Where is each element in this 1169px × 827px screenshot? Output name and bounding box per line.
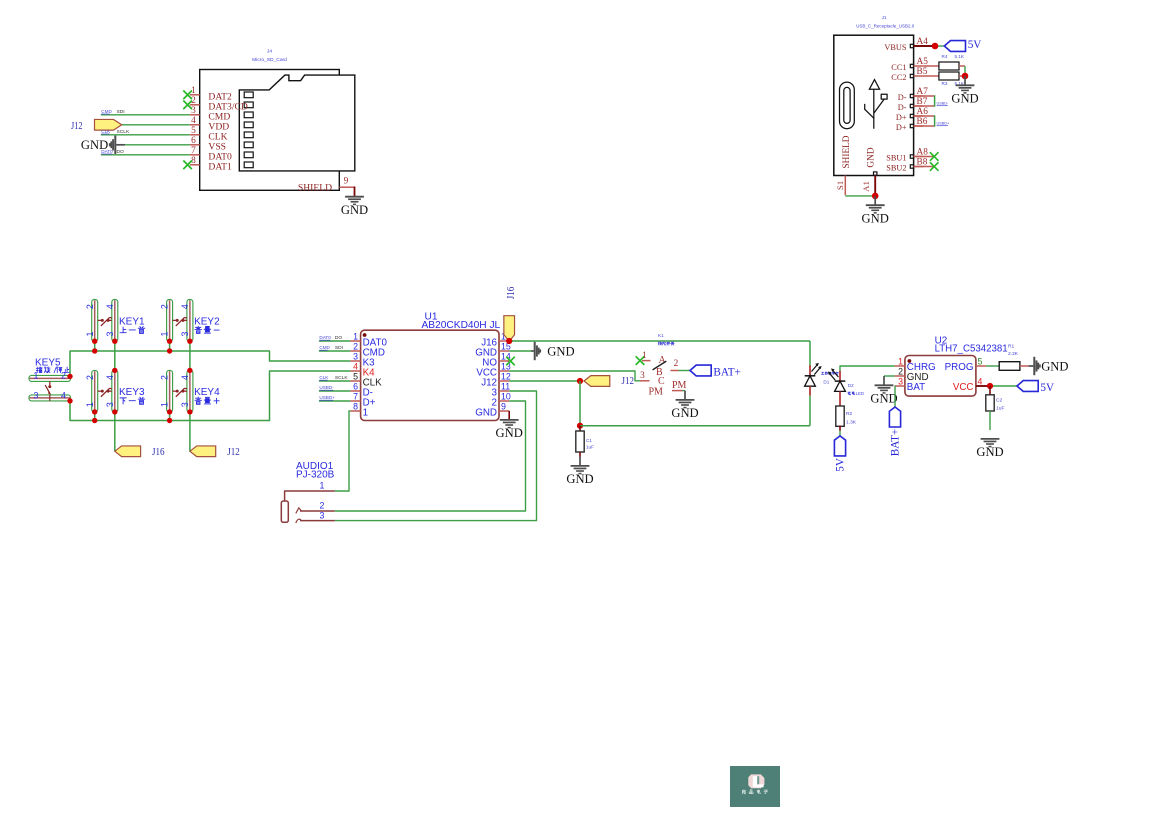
U1 pin 11 3 — [492, 381, 511, 398]
U1 pin 7 D+ — [350, 391, 375, 408]
svg-text:J16: J16 — [152, 446, 165, 458]
svg-text:CC1: CC1 — [891, 63, 906, 72]
wire U1 pin10 to AUDIO1 pin2 — [335, 401, 526, 511]
svg-text:D-: D- — [898, 103, 907, 112]
ground GND on PM net — [671, 391, 698, 421]
svg-text:3: 3 — [105, 402, 115, 407]
svg-text:D-: D- — [898, 93, 907, 102]
resistor R2 1.3K — [836, 391, 857, 426]
svg-text:S1: S1 — [835, 181, 845, 190]
svg-text:2: 2 — [898, 366, 903, 376]
connector J4 body — [200, 70, 355, 191]
svg-text:3: 3 — [180, 331, 190, 336]
svg-text:C2: C2 — [996, 398, 1003, 404]
J1 pin CC1 net A5 — [891, 57, 928, 72]
J1 pin SBU2 net B8 — [886, 158, 927, 173]
svg-text:1: 1 — [642, 351, 647, 361]
resistor R1 2.2K on PROG — [986, 344, 1020, 371]
switch K1 lever — [653, 361, 667, 370]
svg-text:4: 4 — [353, 361, 358, 371]
switch K1 name label — [658, 333, 674, 345]
junction KEY2 pin1 — [167, 339, 172, 344]
svg-text:5: 5 — [191, 126, 196, 136]
svg-text:C: C — [658, 376, 665, 387]
wire U2 GND pin2 to ground — [884, 375, 895, 377]
svg-text:C1: C1 — [586, 438, 592, 443]
wire net USBD+ at U1 pin7 — [319, 395, 351, 401]
no-connect X on J4 pin 1 — [183, 91, 192, 100]
U1 pin 9 GND — [475, 401, 509, 418]
U2 pin 1 CHRG — [895, 356, 936, 373]
svg-text:4: 4 — [61, 391, 66, 401]
svg-text:2: 2 — [85, 304, 95, 309]
svg-text:PM: PM — [649, 387, 664, 398]
wire R4/R3 to ground — [959, 66, 965, 76]
svg-text:11: 11 — [501, 381, 510, 391]
svg-text:3: 3 — [180, 402, 190, 407]
junction on VBUS wire — [932, 43, 939, 50]
svg-text:1uF: 1uF — [996, 406, 1004, 412]
junction KEY2 pin3 — [187, 339, 192, 344]
no-connect X on J4 pin 8 — [183, 161, 192, 170]
junction KEY3 pin3 — [112, 409, 117, 414]
J4 pin 4 VDD — [190, 116, 229, 132]
svg-text:5V: 5V — [968, 39, 982, 51]
U2 pin 5 PROG — [945, 356, 986, 373]
no-connect X on SBU1 — [914, 152, 939, 161]
svg-text:PJ-320B: PJ-320B — [296, 469, 335, 480]
power flag 5V at VBUS — [944, 39, 981, 52]
svg-text:J16: J16 — [505, 286, 517, 299]
J1 USB trident symbol — [865, 80, 887, 129]
svg-text:GND: GND — [547, 344, 574, 358]
U1 pin 13 VCC — [476, 361, 511, 378]
svg-text:9: 9 — [344, 176, 349, 186]
no-connect X on U1 pin14 — [506, 357, 515, 366]
svg-text:J12: J12 — [227, 446, 240, 458]
U1 pin 6 D- — [350, 381, 373, 398]
U1 pin1 marker — [363, 333, 367, 337]
svg-text:LED: LED — [856, 391, 864, 396]
pushbutton KEY5 (play/pause) — [29, 358, 71, 401]
corner logo badge — [730, 766, 780, 807]
J4 pin 8 DAT1 — [190, 156, 232, 172]
svg-text:J12: J12 — [622, 375, 635, 387]
pushbutton KEY3 (next song) — [85, 370, 145, 412]
U2 pin 3 BAT — [895, 376, 925, 393]
svg-text:3: 3 — [640, 371, 645, 381]
svg-text:GND: GND — [341, 203, 368, 217]
AUDIO1 pin 2 — [296, 501, 335, 514]
svg-text:6: 6 — [353, 381, 358, 391]
svg-text:3: 3 — [353, 351, 358, 361]
capacitor C1 1uF — [576, 426, 594, 457]
switch K1 pin1 with no-connect X — [636, 351, 651, 365]
wire net DAT0 at U1 pin1 — [319, 335, 351, 341]
svg-text:J1: J1 — [882, 15, 887, 20]
svg-text:D+: D+ — [896, 123, 907, 132]
svg-text:DAT0: DAT0 — [101, 149, 113, 154]
svg-text:5.1K: 5.1K — [955, 54, 965, 59]
svg-text:1: 1 — [160, 331, 170, 336]
svg-text:SCLK: SCLK — [335, 375, 349, 381]
svg-text:VBUS: VBUS — [884, 43, 907, 52]
svg-text:7: 7 — [353, 391, 358, 401]
power flag BAT+ at switch — [690, 365, 741, 378]
pushbutton KEY2 (volume minus) — [160, 300, 220, 342]
svg-text:2: 2 — [320, 501, 325, 511]
J4 pin 2 DAT3/CD — [190, 96, 248, 112]
svg-text:R1: R1 — [1008, 344, 1015, 350]
U1 pin 10 2 — [492, 391, 511, 408]
svg-text:GND: GND — [496, 426, 523, 440]
wire net DAT0 to J4 pin7 — [101, 149, 190, 155]
svg-text:D1: D1 — [823, 380, 829, 385]
ground GND below C1 — [566, 457, 593, 487]
LED D1 indicator — [805, 341, 822, 426]
netport J16 flag above U1 pin16 — [504, 286, 517, 341]
wire VBUS A4 to 5V — [914, 45, 945, 47]
wire K1 pin2 to BAT+ — [679, 370, 691, 372]
svg-text:4: 4 — [180, 304, 190, 309]
junction KEY4 pin3 — [187, 409, 192, 414]
ground GND below C2 — [976, 439, 1003, 459]
svg-text:SDI: SDI — [117, 109, 125, 115]
svg-text:GND: GND — [862, 212, 889, 226]
wire U1 pin12 to J12 flag — [509, 380, 580, 382]
svg-text:GND: GND — [951, 92, 978, 106]
svg-text:USB_C_Receptacle_USB2.0: USB_C_Receptacle_USB2.0 — [856, 23, 915, 28]
svg-text:KEY3: KEY3 — [119, 387, 145, 398]
J4 pin 6 VSS — [190, 136, 226, 152]
svg-text:GND: GND — [1041, 359, 1068, 373]
svg-text:CMD: CMD — [319, 345, 330, 350]
svg-text:CMD: CMD — [101, 109, 112, 114]
svg-text:2: 2 — [85, 375, 95, 380]
junction KEY5 pin2 — [67, 374, 72, 379]
svg-text:DO: DO — [117, 149, 125, 155]
svg-text:4: 4 — [191, 116, 196, 126]
wire net PM to ground — [672, 380, 687, 391]
J1 pin VBUS net A4 — [884, 37, 928, 52]
junction U1 pin16 — [506, 338, 512, 344]
power flag BAT+ below U2 — [889, 407, 901, 456]
svg-text:1: 1 — [34, 371, 39, 381]
netport J12 flag below keys — [190, 446, 240, 458]
connector J4 Micro_SD_Card title — [252, 49, 287, 64]
AUDIO1 pin 3 — [296, 510, 335, 523]
wire U2 VCC pin4 to 5V — [976, 385, 1017, 387]
svg-text:SBU1: SBU1 — [886, 153, 906, 162]
J4 pin 1 DAT2 — [190, 86, 232, 102]
svg-text:3: 3 — [191, 106, 196, 116]
junction KEY4 pin4 — [187, 368, 192, 373]
pushbutton KEY1 (previous song) — [85, 300, 145, 342]
U1 pin 3 K3 — [350, 351, 375, 368]
svg-text:1: 1 — [85, 402, 95, 407]
wire net USBD- at U1 pin6 — [319, 385, 351, 391]
svg-text:A1: A1 — [861, 181, 871, 192]
J1 pin D- net B7 — [898, 97, 928, 112]
ground flag GND at J4 pin6 VSS — [81, 136, 190, 154]
ground flag GND at U1 pin15 — [509, 342, 574, 360]
svg-text:GND: GND — [870, 392, 897, 406]
J1 pin A1 lead — [861, 172, 877, 196]
wire U1 pin8 to AUDIO1 pin1 — [335, 411, 351, 491]
svg-text:BAT: BAT — [907, 382, 925, 393]
U1 pin 15 GND — [475, 341, 511, 358]
svg-text:2.2K: 2.2K — [1008, 351, 1019, 357]
svg-text:DAT0: DAT0 — [319, 335, 331, 340]
svg-text:USBD+: USBD+ — [937, 122, 951, 126]
ground GND at J4 shield — [341, 197, 368, 217]
connector J1 body — [834, 35, 914, 175]
svg-text:3: 3 — [898, 376, 903, 386]
J4 pin 7 DAT0 — [190, 146, 232, 162]
svg-text:BAT+: BAT+ — [713, 367, 740, 379]
power flag 5V below R2 — [834, 426, 846, 472]
svg-text:GND: GND — [976, 445, 1003, 459]
wire KEY1 pin1 to bus — [94, 341, 96, 351]
wire net CLK to J4 pin5 — [101, 129, 190, 135]
svg-text:3: 3 — [105, 331, 115, 336]
svg-text:KEY2: KEY2 — [194, 316, 220, 327]
wire key matrix row bus bottom — [70, 371, 350, 421]
wire J4 shield to ground — [354, 187, 356, 197]
U1 pin 8 1 — [350, 401, 368, 418]
U2 pin1 marker — [908, 359, 912, 363]
svg-text:PROG: PROG — [945, 362, 974, 373]
capacitor C2 1uF — [986, 386, 1005, 430]
AUDIO1 pin 1 — [285, 481, 335, 501]
wire USBD- linking A7 B7 — [914, 95, 949, 106]
svg-text:2: 2 — [353, 341, 358, 351]
svg-text:K1: K1 — [658, 333, 664, 338]
wire KEY4 pin1 to bus — [169, 412, 171, 421]
svg-text:SCLK: SCLK — [117, 129, 131, 135]
wire net J16 column — [114, 341, 116, 451]
J1 pin SBU1 net A8 — [886, 148, 928, 163]
svg-text:Micro_SD_Card: Micro_SD_Card — [252, 57, 287, 63]
junction KEY1 pin1 — [92, 339, 97, 344]
svg-text:VCC: VCC — [953, 382, 974, 393]
svg-text:4: 4 — [978, 376, 983, 386]
svg-text:J4: J4 — [267, 49, 272, 55]
J1 pin D+ net A6 — [896, 107, 928, 122]
J1 pin CC2 net B5 — [891, 67, 927, 82]
wire U1 pin11 to AUDIO1 pin3 — [335, 391, 537, 521]
svg-text:1: 1 — [160, 402, 170, 407]
LED D1 labels — [821, 372, 838, 385]
svg-text:R2: R2 — [846, 411, 853, 417]
svg-text:D+: D+ — [896, 113, 907, 122]
wire S1 to A1 ground — [845, 195, 875, 197]
netport J16 flag below keys — [115, 446, 165, 458]
switch K1 pin2 — [671, 359, 679, 370]
wire J12 net down to C1 — [579, 381, 581, 426]
ground GND at U2 pin2 — [870, 376, 897, 406]
svg-text:KEY1: KEY1 — [119, 316, 145, 327]
svg-text:9: 9 — [501, 401, 506, 411]
junction at C1 top — [577, 423, 583, 429]
svg-text:2: 2 — [160, 304, 170, 309]
wire net CMD at U1 pin2 — [319, 345, 351, 351]
wire KEY2 pin1 to bus — [169, 341, 171, 351]
junction KEY4 pin1 — [167, 409, 172, 414]
svg-text:KEY4: KEY4 — [194, 387, 220, 398]
no-connect X on J4 pin 2 — [183, 101, 192, 110]
wire U1 pin16 J16 to LED D1 — [509, 340, 810, 342]
svg-text:2: 2 — [674, 359, 679, 369]
svg-text:CLK: CLK — [101, 129, 111, 134]
J1 pin D- net A7 — [898, 87, 928, 102]
svg-text:1.3K: 1.3K — [846, 420, 857, 426]
LED D2 charge indicator — [828, 366, 895, 391]
svg-text:6: 6 — [191, 136, 196, 146]
netport J12 flag right of U1 — [584, 375, 634, 387]
svg-text:BAT+: BAT+ — [889, 429, 901, 456]
svg-text:5V: 5V — [834, 458, 846, 472]
svg-text:CLK: CLK — [319, 375, 329, 380]
wire net J12 column — [189, 341, 191, 451]
svg-text:D2: D2 — [848, 383, 854, 388]
J4 pin 3 CMD — [190, 106, 231, 122]
wire net CLK at U1 pin5 — [319, 375, 351, 381]
wire KEY3 pin1 to bus — [94, 412, 96, 421]
svg-text:3: 3 — [34, 391, 39, 401]
svg-text:1: 1 — [85, 331, 95, 336]
IC U2 body — [905, 356, 976, 397]
U1 pin 16 J16 — [481, 331, 511, 348]
U1 pin 12 J12 — [481, 371, 511, 388]
U2 pin 2 GND — [895, 366, 929, 383]
junction at A1 ground — [872, 193, 879, 200]
U1 pin 2 CMD — [350, 341, 385, 358]
resistor R3 5.1K — [924, 72, 965, 86]
svg-text:SHIELD: SHIELD — [298, 183, 332, 194]
wire net CMD to J4 pin3 — [101, 109, 190, 115]
ground flag GND after R1 — [1020, 357, 1069, 375]
svg-text:4: 4 — [105, 375, 115, 380]
netport J12 flag at J4 pin4 VDD — [71, 119, 190, 132]
svg-text:DAT1: DAT1 — [208, 161, 232, 172]
svg-text:GND: GND — [475, 408, 497, 419]
svg-text:5V: 5V — [1040, 382, 1054, 394]
svg-text:CC2: CC2 — [891, 73, 906, 82]
svg-text:4: 4 — [180, 375, 190, 380]
junction at VCC node — [987, 383, 993, 389]
svg-text:SHIELD: SHIELD — [842, 135, 852, 168]
svg-text:GND: GND — [566, 472, 593, 486]
J4 pin 5 CLK — [190, 126, 228, 142]
audio jack AUDIO1 PJ-320B title — [296, 461, 335, 481]
ground GND below R3 — [951, 76, 978, 106]
svg-text:5: 5 — [978, 356, 983, 366]
switch K1 pin3 — [640, 371, 650, 381]
J1 pin S1 lead — [835, 176, 845, 196]
svg-text:J12: J12 — [71, 120, 83, 132]
svg-text:PM: PM — [672, 380, 687, 391]
power flag 5V right of U2 — [1017, 381, 1054, 394]
U1 pin 14 NO — [482, 351, 511, 368]
AUDIO1 body sleeve — [281, 501, 288, 522]
junction KEY3 pin1 — [92, 409, 97, 414]
wire U1 pin13 VCC to switch pin3 — [509, 371, 640, 381]
junction at J12 net — [577, 378, 583, 384]
pushbutton KEY4 (volume plus) — [160, 370, 220, 412]
svg-text:10: 10 — [501, 391, 511, 401]
wire USBD+ linking A6 B6 — [914, 115, 950, 126]
IC U1 body — [361, 330, 499, 420]
J4 pin 9 SHIELD — [298, 176, 355, 193]
svg-text:SBU2: SBU2 — [886, 163, 906, 172]
svg-text:USBD-: USBD- — [937, 102, 950, 106]
U1 pin 5 CLK — [350, 371, 382, 388]
LED D2 labels — [848, 383, 864, 396]
svg-text:5: 5 — [353, 371, 358, 381]
junction KEY5 pin4 — [67, 398, 72, 403]
svg-text:1: 1 — [320, 481, 325, 491]
svg-text:USBD-: USBD- — [319, 385, 334, 390]
svg-text:AB20CKD40H JL: AB20CKD40H JL — [422, 320, 501, 331]
IC U1 AB20CKD40H JL title — [422, 312, 501, 331]
svg-text:GND: GND — [671, 406, 698, 420]
svg-text:12: 12 — [501, 371, 511, 381]
svg-text:3: 3 — [320, 510, 325, 520]
svg-text:1: 1 — [898, 356, 903, 366]
J1 receptacle pill symbol — [840, 82, 855, 129]
svg-text:R3: R3 — [942, 81, 948, 86]
resistor R4 5.1K — [924, 54, 965, 70]
svg-text:8: 8 — [353, 401, 358, 411]
U1 pin 1 DAT0 — [350, 331, 387, 348]
svg-text:SDI: SDI — [335, 345, 343, 351]
wire key matrix row bus top — [70, 351, 350, 376]
connector J1 USB_C_Receptacle_USB2.0 title — [856, 15, 915, 28]
junction at R3 output — [962, 73, 969, 80]
ground GND below J1 — [862, 196, 889, 226]
ground GND below U1 pin9 — [496, 411, 523, 440]
svg-text:1: 1 — [363, 408, 368, 419]
wire U2 BAT pin3 to BAT+ flag — [894, 386, 896, 407]
J1 pin D+ net B6 — [896, 117, 928, 132]
svg-text:R4: R4 — [942, 54, 948, 59]
junction KEY3 pin4 — [112, 368, 117, 373]
svg-text:1uF: 1uF — [586, 445, 594, 450]
svg-text:LTH7_C5342381: LTH7_C5342381 — [935, 343, 1008, 354]
U2 pin 4 VCC — [953, 376, 983, 393]
svg-text:1: 1 — [353, 331, 358, 341]
svg-text:4: 4 — [105, 304, 115, 309]
svg-text:USBD+: USBD+ — [319, 395, 335, 400]
svg-text:2: 2 — [61, 371, 66, 381]
wire bottom loop C1 to LED D1 — [580, 425, 810, 427]
svg-text:DO: DO — [335, 335, 343, 341]
U1 pin 4 K4 — [350, 361, 375, 378]
IC U2 LTH7_C5342381 title — [935, 336, 1008, 355]
svg-text:2: 2 — [160, 375, 170, 380]
svg-text:GND: GND — [867, 147, 877, 167]
no-connect X on SBU2 — [914, 162, 939, 171]
J4 card contact pads — [244, 92, 253, 168]
junction KEY1 pin3 — [112, 339, 117, 344]
svg-text:7: 7 — [191, 146, 196, 156]
